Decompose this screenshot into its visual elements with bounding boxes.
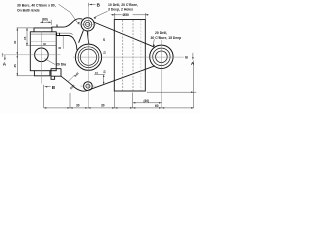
- svg-text:15: 15: [23, 36, 27, 40]
- B top marker: [88, 3, 95, 6]
- front view: left arm top edge with S-curve to top boss: [52, 19, 82, 27]
- svg-text:30 Bore, 40 C’Bore x 80,: 30 Bore, 40 C’Bore x 80,: [17, 4, 56, 8]
- neck between top boss and hub: [79, 31, 89, 44]
- svg-text:30 C’Bore, 15 Deep: 30 C’Bore, 15 Deep: [151, 36, 182, 40]
- svg-text:R40: R40: [73, 71, 80, 78]
- centerlines: [2, 4, 184, 108]
- leader from 10 Drill note: [94, 11, 108, 17]
- front view: bottom tangent lower boss to right hub: [90, 66, 155, 90]
- front view: top boss circles: [81, 18, 94, 31]
- svg-text:30: 30: [101, 103, 105, 107]
- svg-text:20 Drill,: 20 Drill,: [155, 31, 167, 35]
- bottom chain arrows: [44, 107, 47, 109]
- front view: arm left end wall: [57, 25, 60, 36]
- front vertical centerline through bosses: [87, 4, 89, 108]
- left view vertical centerline: [40, 32, 42, 84]
- lower boss horizontal centerline: [81, 85, 96, 87]
- left view: hole circle: [35, 48, 49, 62]
- front view: arm bottom edge with fillet to hub: [57, 36, 77, 50]
- front view: sweep curve lug to lower boss: [61, 76, 90, 91]
- svg-text:15: 15: [95, 71, 98, 75]
- front view: long tangent top boss to right hub: [94, 22, 155, 47]
- top boss horizontal centerline: [80, 23, 97, 25]
- bottom dim baseline: [44, 107, 194, 109]
- short vertical below arm: [62, 36, 64, 49]
- tier1 right dim: [133, 102, 162, 104]
- hidden dashed lines in plate: [123, 20, 141, 91]
- svg-text:3 Deep, 2 Holes: 3 Deep, 2 Holes: [108, 8, 133, 12]
- annotation texts: [3, 2, 195, 108]
- svg-text:20 Dia: 20 Dia: [56, 62, 66, 66]
- dimension lines and leaders: [2, 3, 196, 108]
- front view: plate rectangle: [114, 20, 145, 92]
- front view: lower-left lug: [51, 69, 61, 80]
- svg-text:30: 30: [76, 103, 80, 107]
- left view: foot: [34, 71, 50, 76]
- front view: main hub circles: [75, 44, 101, 70]
- A marker right: [192, 53, 194, 60]
- svg-text:On Both Ends: On Both Ends: [17, 8, 40, 12]
- svg-text:30: 30: [58, 46, 61, 50]
- front view: right hub circles: [150, 45, 173, 68]
- svg-text:B: B: [52, 85, 56, 90]
- svg-text:A: A: [3, 62, 7, 67]
- svg-text:A: A: [191, 61, 195, 66]
- leader from 30 Bore note: [59, 4, 79, 24]
- left view: main block: [30, 32, 56, 71]
- svg-text:B: B: [97, 2, 101, 7]
- left dim chain outer: [17, 28, 35, 76]
- leader 20 Dia from left view circle: [45, 59, 56, 65]
- right hub vertical centerline: [161, 40, 163, 108]
- right vertical dim: [147, 61, 196, 108]
- bottom risers: [70, 92, 133, 108]
- left view counterbore line: [30, 45, 56, 47]
- leader right note to right hub: [153, 39, 154, 46]
- front view: arm slot inner line: [57, 33, 73, 34]
- svg-text:R20: R20: [69, 83, 76, 90]
- svg-text:15: 15: [103, 51, 107, 54]
- svg-text:30: 30: [13, 40, 17, 44]
- svg-text:(40): (40): [144, 99, 150, 103]
- svg-text:60: 60: [155, 104, 159, 108]
- left view horizontal centerline: [2, 54, 60, 56]
- front view: lower boss circles: [84, 82, 93, 91]
- dim (80) top left: [40, 20, 51, 25]
- svg-text:35: 35: [103, 70, 107, 73]
- small L dim near lower boss: [94, 75, 105, 85]
- main horizontal centerline: [73, 56, 184, 58]
- svg-text:B: B: [185, 56, 188, 60]
- arrowheads: [4, 4, 194, 109]
- dia 50 dim: [111, 13, 149, 19]
- B bottom marker: [44, 85, 51, 89]
- leader on sweep for radius label: [68, 75, 75, 82]
- B bottom riser: [43, 89, 45, 108]
- left view: top tab: [34, 28, 52, 32]
- svg-text:20: 20: [102, 38, 106, 41]
- svg-text:Ø50: Ø50: [123, 13, 130, 17]
- svg-text:25: 25: [13, 64, 17, 68]
- svg-text:(80): (80): [42, 18, 48, 22]
- A marker left: [2, 53, 5, 60]
- thin extra lines: [26, 34, 63, 49]
- left dim chain inner: [26, 28, 28, 46]
- svg-text:10 Drill, 20 C’Bore,: 10 Drill, 20 C’Bore,: [108, 3, 138, 7]
